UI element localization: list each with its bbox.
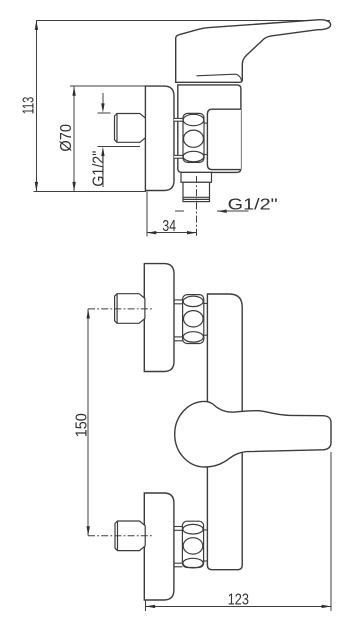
svg-text:G1/2": G1/2": [90, 151, 107, 187]
svg-text:34: 34: [162, 218, 176, 235]
svg-text:Ø70: Ø70: [58, 124, 75, 152]
svg-text:123: 123: [228, 592, 249, 609]
svg-text:G1/2": G1/2": [228, 196, 278, 213]
svg-text:150: 150: [73, 413, 90, 437]
svg-text:113: 113: [20, 97, 37, 115]
